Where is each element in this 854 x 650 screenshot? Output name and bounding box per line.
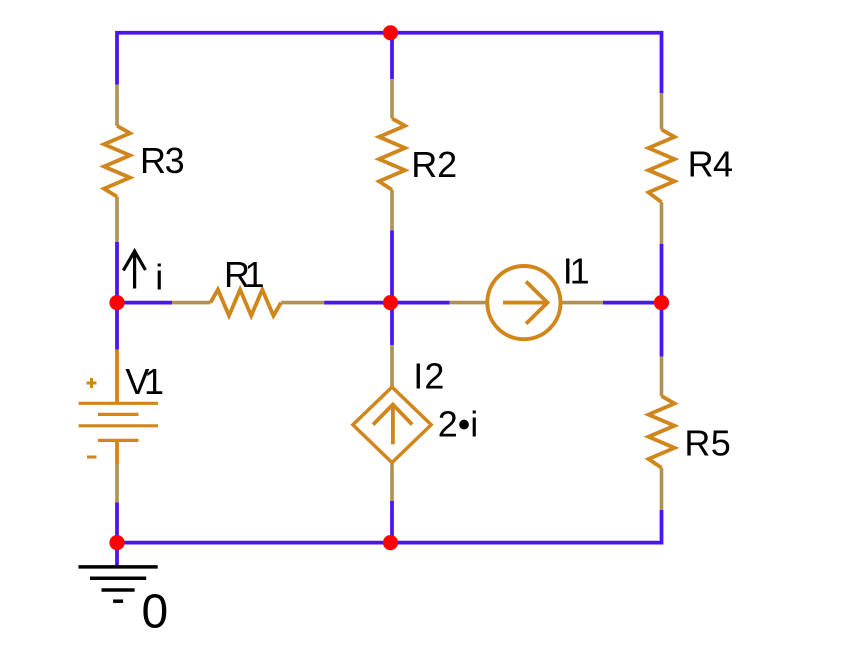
svg-text:0: 0 (142, 586, 169, 639)
svg-text:I1: I1 (563, 250, 590, 291)
svg-text:R2: R2 (411, 144, 457, 185)
svg-text:R1: R1 (224, 254, 265, 295)
svg-text:I2: I2 (413, 356, 444, 397)
svg-text:2•i: 2•i (438, 404, 478, 445)
svg-text:R3: R3 (140, 140, 185, 181)
svg-text:R5: R5 (684, 423, 730, 464)
svg-text:V1: V1 (125, 361, 164, 402)
svg-text:i: i (155, 257, 163, 298)
svg-text:R4: R4 (688, 143, 733, 184)
